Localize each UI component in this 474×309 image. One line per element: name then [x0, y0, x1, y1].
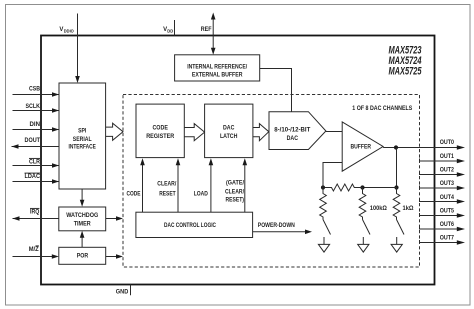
pin M/Z [13, 246, 59, 259]
svg-text:SERIAL: SERIAL [73, 137, 92, 143]
svg-text:OUT7: OUT7 [440, 236, 455, 242]
resistor R4 1k [393, 188, 400, 220]
svg-text:OUT3: OUT3 [440, 181, 455, 187]
ground (middle) [358, 244, 369, 252]
control: (GATE/CLEAR/RESET) arrow [225, 158, 247, 212]
bus arrow: code register to DAC latch [184, 124, 204, 141]
svg-text:OUT5: OUT5 [440, 208, 455, 214]
svg-text:OUT2: OUT2 [440, 168, 455, 174]
pin VDD [163, 20, 174, 36]
svg-text:EXTERNAL BUFFER: EXTERNAL BUFFER [192, 73, 243, 79]
bus arrow: DAC latch to DAC [253, 124, 269, 141]
block: watchdog timer [59, 207, 106, 231]
block: SPI serial interface [59, 83, 106, 189]
node: feedback bottom left [321, 185, 325, 189]
wire: DAC output to buffer input [326, 131, 342, 133]
node: buffer output [394, 145, 398, 149]
IC boundary MAX5723/4/5 [41, 36, 435, 285]
arrow: POR to channel logic [106, 254, 123, 259]
svg-text:DD: DD [167, 28, 174, 33]
control: CLEAR/RESET arrow [157, 158, 180, 212]
svg-text:DAC: DAC [223, 126, 235, 132]
pin VDDIO [59, 14, 79, 84]
svg-text:1 OF 8 DAC CHANNELS: 1 OF 8 DAC CHANNELS [352, 106, 412, 112]
svg-text:CSB: CSB [29, 87, 41, 93]
svg-text:LATCH: LATCH [220, 134, 238, 140]
resistor R1 (feedback, horizontal) [323, 184, 363, 191]
output OUT6 [420, 222, 466, 231]
block: DAC latch [205, 104, 253, 158]
svg-text:SPI: SPI [78, 129, 86, 135]
svg-text:CLR: CLR [29, 160, 41, 166]
svg-text:TIMER: TIMER [74, 221, 92, 227]
pin IRQ (active low, output) [13, 208, 59, 220]
op-amp buffer U3 [342, 122, 383, 171]
svg-text:LOAD: LOAD [194, 191, 209, 197]
svg-text:INTERFACE: INTERFACE [69, 144, 96, 150]
pin DOUT (output) [12, 138, 60, 149]
svg-text:8-/10-/12-BIT: 8-/10-/12-BIT [274, 128, 310, 134]
control: CODE arrow [127, 158, 145, 212]
svg-text:(GATE/: (GATE/ [226, 181, 244, 187]
svg-text:1kΩ: 1kΩ [403, 206, 414, 212]
output OUT4 [420, 195, 466, 204]
pin CLR (active low) [13, 158, 60, 167]
resistor R3 100k [359, 188, 366, 220]
block: DAC control logic [136, 212, 253, 237]
svg-text:BUFFER: BUFFER [351, 145, 372, 151]
svg-text:WATCHDOG: WATCHDOG [66, 213, 98, 219]
output OUT0 [440, 140, 465, 150]
svg-text:MAX5725: MAX5725 [389, 65, 423, 77]
output OUT1 [420, 154, 466, 163]
output OUT3 [420, 181, 466, 190]
control: LOAD arrow [194, 158, 214, 212]
svg-text:IRQ: IRQ [30, 209, 40, 215]
switch S1 [323, 220, 331, 245]
signal POWER-DOWN [253, 223, 313, 234]
svg-text:RESET: RESET [159, 191, 176, 197]
dashed box: 1 of 8 DAC channels [123, 95, 420, 268]
pin GND [116, 285, 131, 296]
output OUT5 [420, 208, 466, 217]
node: feedback bottom right [394, 185, 398, 189]
svg-text:CODE: CODE [127, 191, 141, 197]
svg-text:REF: REF [201, 27, 212, 33]
wire: bottom rail right segment [363, 187, 397, 189]
block: code register [136, 104, 184, 158]
node: 100k top [360, 185, 364, 189]
pin DIN [13, 122, 60, 132]
pin REF (bidirectional arrow) [201, 13, 216, 55]
resistor R2 (left pulldown) [320, 188, 327, 220]
pin SCLK [13, 104, 60, 113]
svg-text:OUT4: OUT4 [440, 195, 455, 201]
bus arrow: SPI to code register [106, 123, 123, 140]
svg-text:REGISTER: REGISTER [146, 134, 175, 140]
pin CSB [13, 87, 60, 97]
output OUT2 [420, 168, 466, 177]
DAC U2: 8-/10-/12-bit DAC [269, 112, 326, 150]
block: internal reference / external buffer U1 [175, 55, 260, 81]
svg-text:CLEAR/: CLEAR/ [157, 182, 176, 188]
svg-text:LDAC: LDAC [25, 174, 41, 180]
wire: reference buffer output to DAC [260, 69, 292, 112]
svg-text:M/Z: M/Z [29, 247, 39, 253]
wire: feedback to buffer inverting input [323, 163, 342, 188]
svg-text:GND: GND [116, 290, 129, 296]
svg-text:INTERNAL REFERENCE/: INTERNAL REFERENCE/ [187, 65, 247, 71]
svg-text:CODE: CODE [152, 126, 168, 132]
svg-text:OUT6: OUT6 [440, 222, 455, 228]
svg-text:POWER-DOWN: POWER-DOWN [258, 223, 295, 229]
switch S2 [363, 220, 371, 245]
svg-text:POR: POR [77, 253, 89, 259]
output OUT7 [420, 236, 466, 245]
ground (right) [391, 244, 402, 252]
svg-text:DIN: DIN [30, 122, 41, 128]
part numbers MAX5723 MAX5724 MAX5725 [389, 45, 423, 78]
switch S3 [397, 220, 405, 245]
svg-text:OUT0: OUT0 [440, 140, 455, 146]
ground (left) [318, 244, 329, 252]
svg-text:DAC: DAC [287, 136, 299, 142]
svg-text:100kΩ: 100kΩ [370, 206, 387, 212]
block: POR [59, 247, 106, 264]
arrow: watchdog to channel logic [106, 216, 123, 221]
wire: buffer output to OUT0 [383, 147, 457, 149]
svg-text:DAC CONTROL LOGIC: DAC CONTROL LOGIC [164, 223, 217, 229]
svg-text:CLEAR/: CLEAR/ [225, 189, 244, 195]
svg-text:RESET): RESET) [226, 198, 245, 204]
svg-text:DDIO: DDIO [64, 28, 74, 33]
svg-text:SCLK: SCLK [26, 104, 41, 110]
pin LDAC (active low) [13, 173, 60, 184]
wire: feedback vertical drop [396, 148, 398, 188]
wire: SPI to watchdog timer [80, 189, 85, 207]
svg-text:OUT1: OUT1 [440, 154, 455, 160]
arrow: POR to watchdog [80, 231, 85, 248]
svg-text:DOUT: DOUT [25, 138, 41, 144]
